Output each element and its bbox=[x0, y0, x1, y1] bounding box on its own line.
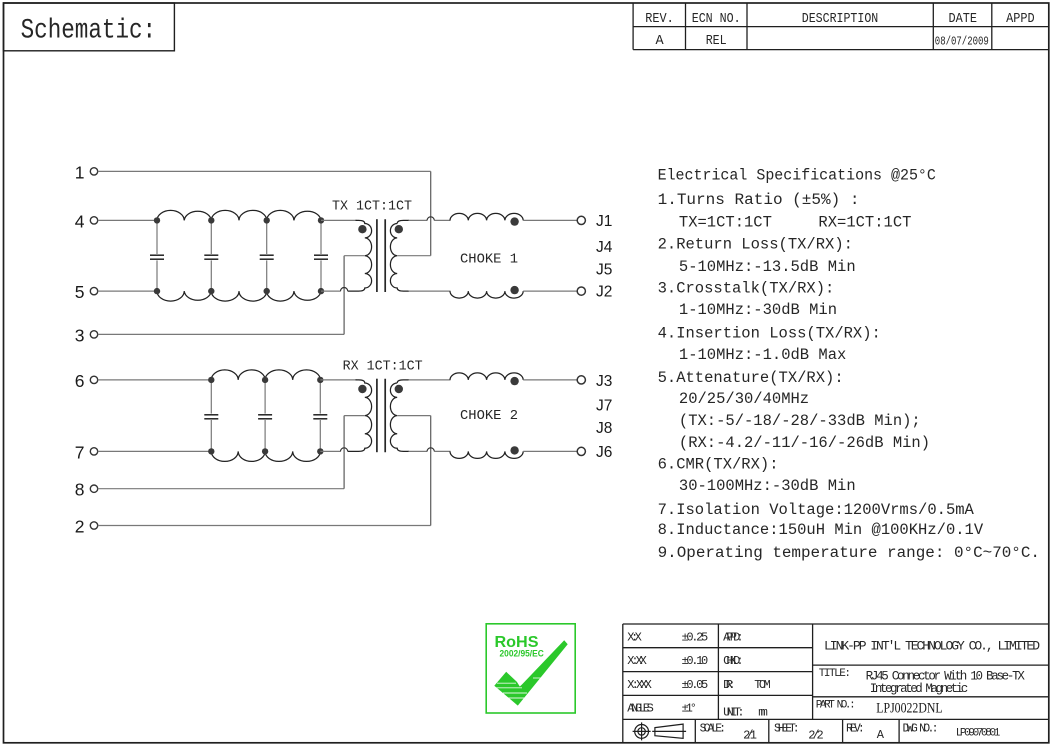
svg-text:J3: J3 bbox=[596, 373, 612, 390]
svg-text:Electrical Specifications @25°: Electrical Specifications @25°C bbox=[658, 166, 936, 184]
capacitor C6 bbox=[258, 380, 272, 452]
junction dots TX filter top bbox=[154, 217, 324, 223]
svg-text:X:X: X:X bbox=[627, 631, 642, 645]
svg-text:TOM: TOM bbox=[754, 678, 771, 692]
svg-text:REV:: REV: bbox=[846, 723, 865, 736]
REVISION TABLE bbox=[633, 3, 1049, 50]
svg-text:mm: mm bbox=[758, 705, 768, 719]
svg-text:A: A bbox=[877, 728, 885, 742]
svg-text:X:XXX: X:XXX bbox=[627, 678, 652, 692]
pin 7 terminal bbox=[90, 448, 97, 455]
T2 primary polarity dot bbox=[358, 385, 366, 393]
svg-text:DESCRIPTION: DESCRIPTION bbox=[802, 12, 879, 27]
choke 2 top winding bbox=[450, 373, 523, 380]
svg-text:CHKD:: CHKD: bbox=[723, 654, 744, 668]
choke 1 top winding bbox=[450, 213, 523, 220]
SPEC TEXT BLOCK bbox=[658, 166, 1040, 562]
svg-text:7.Isolation Voltage:1200Vrms/0: 7.Isolation Voltage:1200Vrms/0.5mA bbox=[658, 501, 975, 519]
svg-text:2: 2 bbox=[75, 517, 85, 537]
wire hop RX bottom over pin2 riser bbox=[427, 448, 434, 452]
inductor humps TX filter bottom line bbox=[157, 291, 321, 301]
choke 2 bottom winding bbox=[450, 451, 523, 458]
svg-text:5-10MHz:-13.5dB Min: 5-10MHz:-13.5dB Min bbox=[679, 258, 856, 276]
wire pin8 to RX primary center tap bbox=[98, 488, 344, 490]
svg-text:2002/95/EC: 2002/95/EC bbox=[500, 649, 545, 659]
svg-text:5: 5 bbox=[75, 282, 85, 302]
capacitor C7 bbox=[313, 380, 327, 452]
svg-text:6.CMR(TX/RX):: 6.CMR(TX/RX): bbox=[658, 456, 779, 474]
svg-text:DR:: DR: bbox=[723, 678, 736, 692]
wire choke1 bottom to J2 bbox=[523, 290, 577, 292]
svg-text:J5: J5 bbox=[596, 262, 612, 279]
svg-text:DATE: DATE bbox=[949, 12, 978, 27]
inductor humps TX filter top line bbox=[157, 210, 321, 220]
wire hop TX top over pin1 riser bbox=[427, 217, 434, 221]
svg-text:ECN NO.: ECN NO. bbox=[692, 12, 741, 27]
junction dots RX filter top bbox=[208, 377, 323, 383]
svg-text:J6: J6 bbox=[596, 444, 612, 461]
svg-text:2/2: 2/2 bbox=[808, 729, 823, 743]
T2 primary center tap wire bbox=[344, 415, 365, 417]
svg-text:2/1: 2/1 bbox=[743, 729, 757, 743]
svg-text:J7: J7 bbox=[596, 398, 612, 415]
svg-text:1-10MHz:-1.0dB Max: 1-10MHz:-1.0dB Max bbox=[679, 346, 846, 364]
inductor humps RX filter top line bbox=[211, 370, 320, 380]
ROHS LOGO bbox=[486, 624, 575, 713]
wire choke2 bottom to J6 bbox=[523, 450, 577, 452]
transformer T2 primary winding bbox=[320, 379, 356, 381]
svg-text:6: 6 bbox=[75, 371, 85, 391]
svg-text:±0.05: ±0.05 bbox=[682, 678, 709, 692]
svg-text:±0.25: ±0.25 bbox=[682, 631, 709, 645]
node J1 terminal bbox=[577, 216, 585, 224]
svg-text:J1: J1 bbox=[596, 213, 612, 230]
wire pin4 to filter bbox=[98, 219, 157, 221]
T1 secondary center tap wire bbox=[397, 255, 431, 257]
pin 2 terminal bbox=[90, 522, 97, 529]
svg-text:DWG NO.:: DWG NO.: bbox=[903, 723, 939, 736]
wire pin5 to filter bbox=[98, 290, 157, 292]
wire pin1 to TX secondary center tap bbox=[98, 170, 431, 172]
svg-text:PART NO.:: PART NO.: bbox=[816, 700, 856, 712]
svg-text:LINK-PP INT'L TECHNOLOGY CO.,: LINK-PP INT'L TECHNOLOGY CO., LIMITED bbox=[824, 639, 1040, 654]
svg-text:SCALE:: SCALE: bbox=[700, 723, 726, 736]
transformer T1 secondary winding bbox=[390, 220, 409, 291]
svg-text:1: 1 bbox=[75, 162, 85, 182]
T2 secondary polarity dot bbox=[395, 385, 403, 393]
svg-text:Integrated Magnetic: Integrated Magnetic bbox=[870, 682, 969, 696]
svg-text:08/07/2009: 08/07/2009 bbox=[935, 35, 989, 48]
svg-text:4: 4 bbox=[75, 211, 85, 231]
svg-text:APPD: APPD bbox=[1006, 12, 1035, 27]
transformer T1 primary winding bbox=[321, 219, 357, 221]
choke 1 bottom polarity dot bbox=[510, 286, 518, 294]
svg-text:30-100MHz:-30dB Min: 30-100MHz:-30dB Min bbox=[679, 477, 856, 495]
svg-text:X:XX: X:XX bbox=[627, 654, 647, 668]
capacitor C3 bbox=[260, 220, 274, 291]
pin 1 terminal bbox=[90, 168, 97, 175]
pin 6 terminal bbox=[90, 376, 97, 383]
svg-text:TX=1CT:1CT RX=1CT:1CT: TX=1CT:1CT RX=1CT:1CT bbox=[679, 214, 912, 232]
svg-text:REV.: REV. bbox=[645, 12, 674, 27]
svg-text:7: 7 bbox=[75, 442, 85, 462]
wire hop TX bottom over pin3 riser bbox=[321, 290, 341, 292]
svg-text:9.Operating temperature range:: 9.Operating temperature range: 0°C~70°C. bbox=[658, 544, 1040, 562]
svg-text:CHOKE 1: CHOKE 1 bbox=[460, 251, 518, 267]
svg-text:1.Turns Ratio (±5%) :: 1.Turns Ratio (±5%) : bbox=[658, 191, 860, 209]
transformer T2 secondary winding bbox=[390, 380, 409, 452]
choke 1 top polarity dot bbox=[510, 217, 518, 225]
wire hop RX bottom over pin8 riser bbox=[320, 450, 340, 452]
pin 4 terminal bbox=[90, 217, 97, 224]
svg-text:UNIT:: UNIT: bbox=[723, 705, 745, 719]
svg-text:TX 1CT:1CT: TX 1CT:1CT bbox=[332, 199, 412, 215]
svg-text:Schematic:: Schematic: bbox=[21, 16, 157, 47]
svg-text:SHEET:: SHEET: bbox=[774, 723, 800, 736]
svg-text:3.Crosstalk(TX/RX):: 3.Crosstalk(TX/RX): bbox=[658, 280, 835, 298]
svg-text:(TX:-5/-18/-28/-33dB Min);: (TX:-5/-18/-28/-33dB Min); bbox=[679, 412, 921, 430]
svg-text:REL: REL bbox=[706, 34, 727, 49]
capacitor C4 bbox=[314, 220, 328, 291]
choke 1 bottom winding bbox=[450, 291, 523, 298]
pin 5 terminal bbox=[90, 287, 97, 294]
svg-text:ANGLES: ANGLES bbox=[627, 702, 654, 716]
svg-text:3: 3 bbox=[75, 325, 85, 345]
svg-text:RX 1CT:1CT: RX 1CT:1CT bbox=[343, 358, 423, 374]
wire pin6 to RX filter bbox=[98, 379, 212, 381]
T1 primary polarity dot bbox=[358, 225, 366, 233]
svg-text:J8: J8 bbox=[596, 420, 612, 437]
pin 3 terminal bbox=[90, 331, 97, 338]
pin 8 terminal bbox=[90, 485, 97, 492]
svg-text:J4: J4 bbox=[596, 239, 613, 256]
svg-text:(RX:-4.2/-11/-16/-26dB Min): (RX:-4.2/-11/-16/-26dB Min) bbox=[679, 434, 930, 452]
svg-text:4.Insertion Loss(TX/RX):: 4.Insertion Loss(TX/RX): bbox=[658, 325, 881, 343]
capacitor C1 bbox=[150, 220, 164, 291]
wire choke2 top to J3 bbox=[523, 379, 577, 381]
svg-text:±1°: ±1° bbox=[682, 702, 698, 716]
wire pin3 to TX primary center tap bbox=[98, 333, 344, 335]
junction dots TX filter bottom bbox=[154, 288, 324, 294]
svg-text:APPD:: APPD: bbox=[723, 631, 744, 645]
capacitor C2 bbox=[204, 220, 218, 291]
transformer T2 core bbox=[377, 379, 385, 453]
T1 secondary polarity dot bbox=[395, 225, 403, 233]
T1 primary center tap wire bbox=[344, 255, 365, 257]
svg-text:TITLE:: TITLE: bbox=[819, 668, 851, 680]
svg-text:A: A bbox=[655, 34, 664, 49]
TITLE BLOCK bbox=[623, 624, 1049, 743]
capacitor C5 bbox=[204, 380, 218, 452]
svg-text:LP09070801: LP09070801 bbox=[956, 728, 1001, 740]
svg-text:5.Attenature(TX/RX):: 5.Attenature(TX/RX): bbox=[658, 369, 844, 387]
choke 2 bottom polarity dot bbox=[510, 446, 518, 454]
wire pin2 to RX secondary center tap bbox=[98, 525, 431, 527]
svg-text:2.Return Loss(TX/RX):: 2.Return Loss(TX/RX): bbox=[658, 236, 853, 254]
node J2 terminal bbox=[577, 287, 585, 295]
choke 2 top polarity dot bbox=[510, 377, 518, 385]
svg-text:8.Inductance:150uH Min @100KHz: 8.Inductance:150uH Min @100KHz/0.1V bbox=[658, 521, 984, 539]
svg-text:J2: J2 bbox=[596, 284, 612, 301]
svg-text:CHOKE 2: CHOKE 2 bbox=[460, 408, 518, 424]
svg-text:LPJ0022DNL: LPJ0022DNL bbox=[876, 700, 942, 716]
inductor humps RX filter bottom line bbox=[211, 451, 320, 461]
T2 secondary center tap wire bbox=[397, 415, 431, 417]
svg-text:±0.10: ±0.10 bbox=[682, 654, 709, 668]
wire pin7 to RX filter bbox=[98, 450, 212, 452]
svg-text:20/25/30/40MHz: 20/25/30/40MHz bbox=[679, 390, 809, 408]
node J3 terminal bbox=[577, 376, 585, 384]
transformer T1 core bbox=[377, 219, 385, 292]
wire T1 secondary top lead bbox=[409, 219, 428, 221]
node J6 terminal bbox=[577, 447, 585, 455]
svg-text:1-10MHz:-30dB Min: 1-10MHz:-30dB Min bbox=[679, 301, 837, 319]
svg-text:8: 8 bbox=[75, 480, 85, 500]
junction dots RX filter bottom bbox=[208, 448, 323, 454]
wire choke1 top to J1 bbox=[523, 219, 577, 221]
